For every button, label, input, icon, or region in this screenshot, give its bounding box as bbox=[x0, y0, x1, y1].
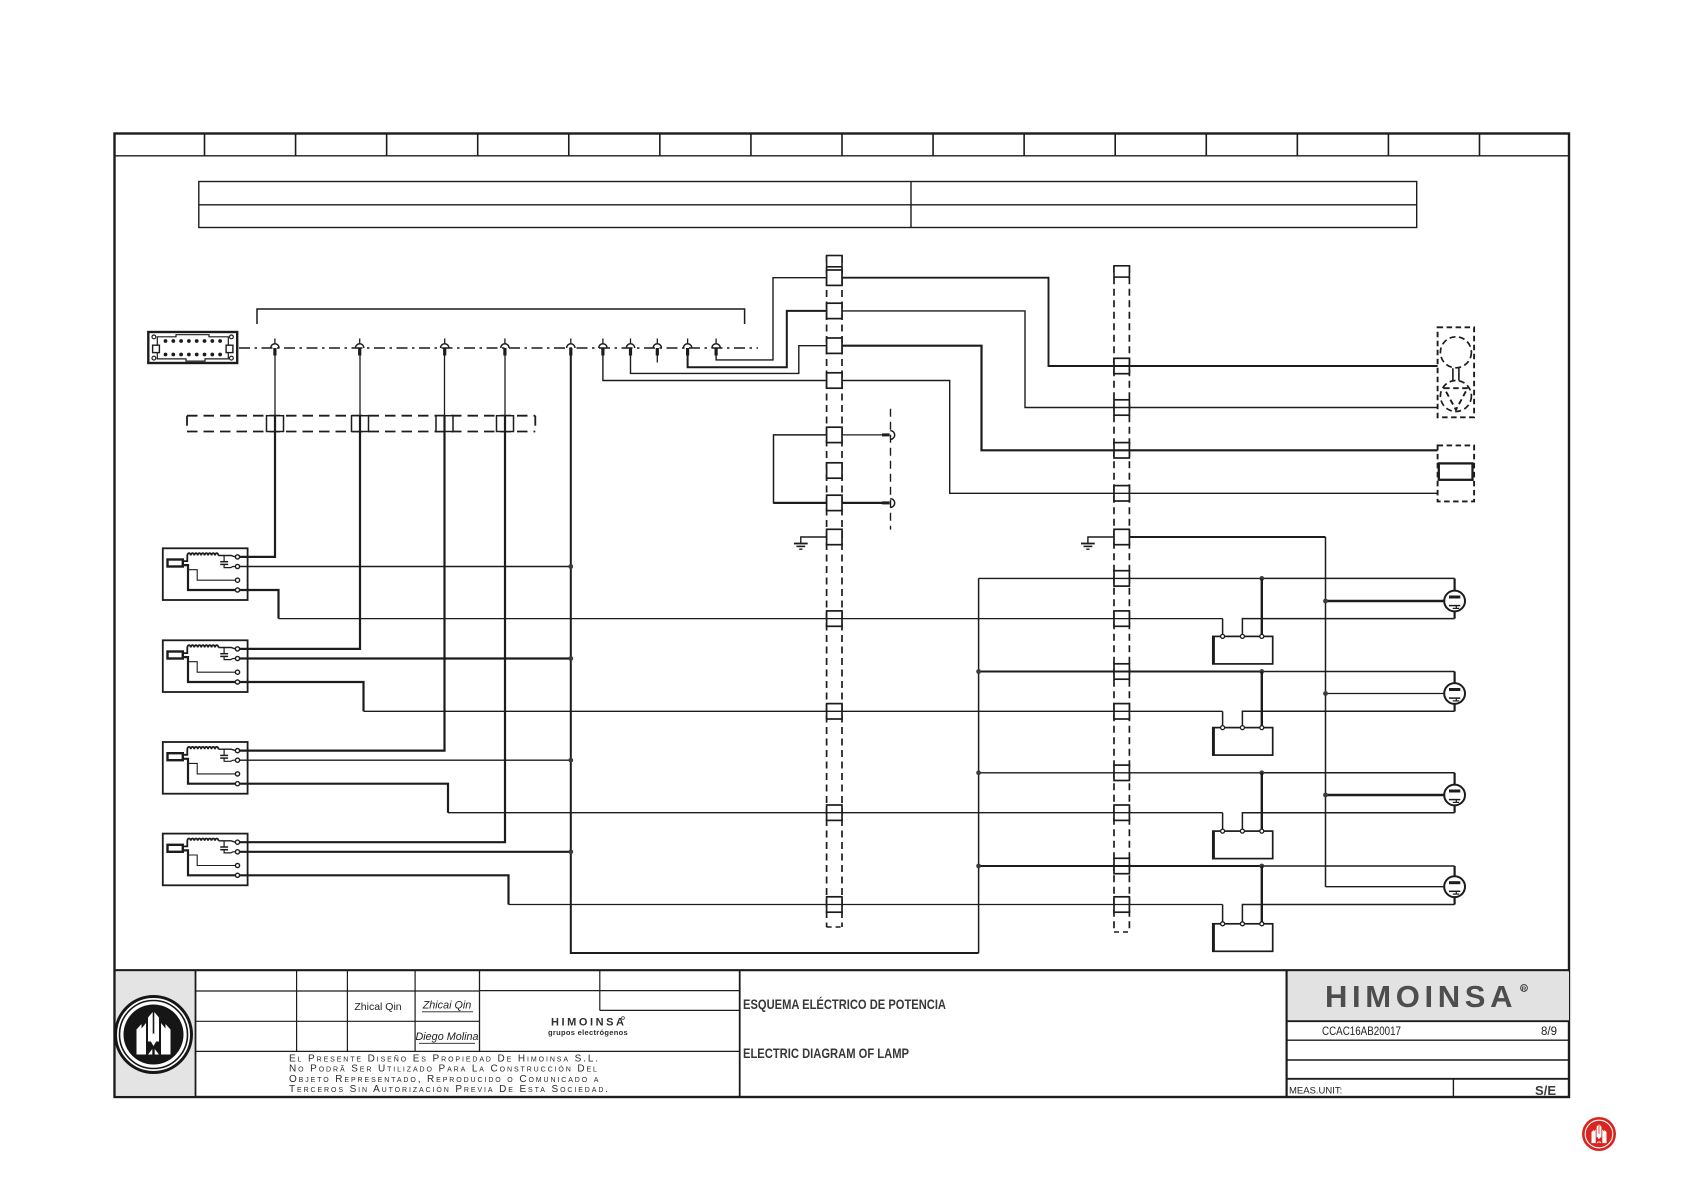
beacon H1 dashed enclosure bbox=[1438, 327, 1475, 417]
wire X1 block2 to X2 block2 to beacon bottom bbox=[842, 311, 1438, 408]
svg-text:S/E: S/E bbox=[1535, 1083, 1556, 1098]
connector J1 corner holes bbox=[152, 335, 156, 339]
title block logo cell grey bbox=[116, 971, 195, 1096]
connector pin symbol 7 bbox=[630, 339, 632, 345]
X1 terminal block 9 bbox=[827, 611, 842, 626]
header info box bbox=[199, 182, 1417, 228]
junction mid rail E3 bbox=[1323, 793, 1328, 798]
igniter K4 terminal2 wire to lamp bottom bbox=[1242, 905, 1454, 922]
bus block 2 bbox=[352, 416, 369, 432]
ballast B4 capacitor C bbox=[223, 841, 225, 847]
wire ballast B3 pin2 to common feed bbox=[240, 759, 571, 761]
wire lamp E2 top feed bbox=[979, 671, 1262, 673]
himoinsa panel bbox=[1285, 970, 1287, 1097]
connector J1 16-pin bbox=[148, 332, 237, 363]
igniter K4 box bbox=[1213, 924, 1273, 952]
ballast B2 inductor L bbox=[183, 645, 219, 653]
wire lamp E4 mid feed bbox=[1326, 886, 1445, 888]
X2 terminal block 9 bbox=[1114, 704, 1129, 719]
svg-text:MEAS.UNIT:: MEAS.UNIT: bbox=[1289, 1086, 1342, 1097]
ballast B4 inductor L bbox=[183, 839, 219, 847]
igniter K3 terminal1 wire bbox=[1222, 813, 1224, 829]
terminal strip X1 top end bbox=[827, 256, 842, 267]
ballast unit B3 box bbox=[163, 742, 248, 794]
junction on common feed at ballast B3 bbox=[568, 758, 573, 763]
igniter K2 terminals bbox=[1221, 726, 1225, 730]
red himoinsa roundel bbox=[1582, 1117, 1616, 1151]
wire connector pin9 to X1 block2 bbox=[688, 311, 827, 367]
wire X1 block7 to sensor pin bbox=[842, 502, 882, 504]
wire ballast B1 pin4 elbow bbox=[240, 590, 279, 619]
ballast B2 capacitor C bbox=[223, 648, 225, 654]
igniter K3 box bbox=[1213, 831, 1273, 859]
bus block 3 bbox=[436, 416, 453, 432]
title block top edge bbox=[115, 969, 1570, 971]
ballast B2 internal wire to pin3 bbox=[188, 662, 236, 673]
wire lamp E4 bottom bus run bbox=[509, 904, 1223, 906]
junction mid rail E2 bbox=[1323, 691, 1328, 696]
X1 terminal block 11 bbox=[827, 805, 842, 820]
dashed bus strip bbox=[187, 415, 535, 417]
wire connector pin4 to ballast B4 pin1 bbox=[504, 356, 506, 416]
ballast B3 terminal pins bbox=[235, 749, 239, 753]
X1 terminal block 10 bbox=[827, 704, 842, 719]
wire connector pin3 to ballast B3 pin1 bbox=[444, 356, 446, 416]
igniter K2 terminal2 wire to lamp bottom bbox=[1242, 711, 1454, 725]
ballast B2 internal wire to pin4 bbox=[183, 657, 236, 682]
igniter K1 terminal3 wire to top junction bbox=[1261, 578, 1263, 634]
X2 terminal block 12 bbox=[1114, 858, 1129, 873]
wire X1 block1 to X2 block1 to beacon top bbox=[842, 278, 1438, 366]
svg-text:HIMOINSA: HIMOINSA bbox=[551, 1017, 625, 1029]
X2 terminal block 4 bbox=[1114, 486, 1129, 501]
junction top bus E3 bbox=[976, 770, 981, 775]
svg-text:Zhicai Qin: Zhicai Qin bbox=[422, 1000, 472, 1012]
svg-text:Diego Molina: Diego Molina bbox=[415, 1031, 478, 1043]
igniter K2 terminal3 wire to top junction bbox=[1261, 672, 1263, 726]
wire lamp E3 mid feed bbox=[1326, 794, 1445, 796]
X1 terminal block 6 bbox=[827, 463, 842, 478]
igniter K4 terminal3 wire to top junction bbox=[1261, 866, 1263, 922]
igniter K4 terminals bbox=[1221, 922, 1225, 926]
sensor dashed axis bbox=[890, 409, 892, 530]
ground wire at X2 bbox=[1088, 537, 1114, 544]
discharge lamp E2 bbox=[1444, 683, 1465, 704]
igniter K1 terminals bbox=[1221, 634, 1225, 638]
connector J1 side tabs bbox=[153, 345, 160, 352]
stub connector pin8 unused bbox=[656, 356, 658, 363]
ballast B2 terminal pins bbox=[235, 647, 239, 651]
discharge lamp E4 bbox=[1444, 876, 1465, 897]
title table verticals bbox=[296, 970, 298, 1051]
wire X1 block4 to X2 block4 to flasher bbox=[842, 381, 1438, 494]
beacon H1 buzzer triangle bbox=[1444, 388, 1467, 410]
svg-text:grupos electrógenos: grupos electrógenos bbox=[548, 1028, 628, 1037]
ground wire at X1 bbox=[801, 537, 827, 544]
sensor pin symbol upper bbox=[882, 433, 890, 436]
sensor pin symbol lower bbox=[882, 501, 890, 504]
ballast B3 inductor L bbox=[183, 747, 219, 755]
svg-text:CCAC16AB20017: CCAC16AB20017 bbox=[1322, 1026, 1401, 1038]
connector pin symbol 3 bbox=[444, 339, 446, 345]
wire ballast B3 pin4 elbow bbox=[240, 784, 448, 813]
X2 terminal block 5 bbox=[1114, 529, 1129, 544]
ballast B3 internal wire to pin3 bbox=[188, 763, 236, 774]
junction top bus E4 bbox=[976, 864, 981, 869]
wire X1 block5 to sensor pin bbox=[842, 434, 882, 436]
svg-text:HIMOINSA: HIMOINSA bbox=[1325, 979, 1515, 1014]
igniter K3 terminals bbox=[1221, 829, 1225, 833]
junction top bus E2 bbox=[976, 669, 981, 674]
ballast B3 internal wire to pin4 bbox=[183, 759, 236, 784]
junction on common feed at ballast B1 bbox=[568, 564, 573, 569]
X2 terminal block 2 bbox=[1114, 400, 1129, 415]
ballast B4 terminal pins bbox=[235, 840, 239, 844]
X1 terminal block 8 bbox=[827, 529, 842, 544]
connector pin symbol 5 bbox=[570, 339, 572, 345]
junction relay K2 coil tap bbox=[1259, 669, 1264, 674]
wire lamp E4 top feed bbox=[979, 865, 1262, 867]
wire lamp E2 bottom bus run bbox=[364, 710, 1223, 712]
ballast unit B2 box bbox=[163, 640, 248, 692]
beacon H1 buzzer circle bbox=[1440, 381, 1471, 412]
beacon H1 link bbox=[1452, 368, 1454, 380]
igniter K4 terminal1 wire bbox=[1222, 905, 1224, 922]
flasher unit body bbox=[1439, 463, 1473, 479]
junction relay K1 coil tap bbox=[1259, 576, 1264, 581]
discharge lamp E3 bbox=[1444, 785, 1465, 806]
ballast B1 capacitor C bbox=[223, 556, 225, 562]
wire connector pin6 to X1 block4 bbox=[603, 356, 827, 381]
terminal strip X1 rails bbox=[826, 256, 828, 928]
ballast unit B1 box bbox=[163, 548, 248, 600]
connector J1 pin dots bbox=[164, 339, 168, 343]
flasher unit dashed enclosure bbox=[1438, 445, 1475, 501]
ground symbol G2 bbox=[1081, 543, 1095, 545]
ground symbol G1 bbox=[794, 543, 808, 545]
wire ballast B4 pin4 elbow bbox=[240, 875, 509, 904]
X2 terminal block 1 bbox=[1114, 358, 1129, 373]
junction on common feed at ballast B2 bbox=[568, 656, 573, 661]
junction on common feed at ballast B4 bbox=[568, 849, 573, 854]
X1 terminal block 1 bbox=[827, 270, 842, 285]
company logo castle bbox=[137, 1012, 171, 1056]
connector pin symbol 4 bbox=[504, 339, 506, 345]
terminal strip X2 rails bbox=[1113, 266, 1115, 932]
ballast B1 internal wire to pin3 bbox=[188, 570, 236, 581]
wire X2 ground block to lamp mid rail bbox=[1129, 536, 1325, 538]
X2 terminal block 7 bbox=[1114, 611, 1129, 626]
igniter K2 terminal1 wire bbox=[1222, 711, 1224, 725]
ballast B1 internal wire to pin4 bbox=[183, 565, 236, 590]
discharge lamp E1 bbox=[1444, 591, 1465, 612]
X1 terminal block 3 bbox=[827, 338, 842, 353]
wire lamp E1 mid feed bbox=[1326, 600, 1445, 602]
igniter K2 box bbox=[1213, 728, 1273, 756]
wire connector pin2 to ballast B2 pin1 bbox=[359, 356, 361, 416]
svg-text:ELECTRIC DIAGRAM OF LAMP: ELECTRIC DIAGRAM OF LAMP bbox=[743, 1045, 909, 1061]
wire X1 block3 to X2 block3 to flasher bbox=[842, 346, 1438, 451]
bus block 4 bbox=[497, 416, 514, 432]
wire connector pin10 to X1 block1 bbox=[716, 278, 827, 360]
lamp top bus vertical bbox=[978, 578, 980, 953]
svg-text:8/9: 8/9 bbox=[1541, 1026, 1557, 1038]
wire ballast B1 pin2 to common feed bbox=[240, 566, 571, 568]
wire ballast B4 pin2 to common feed bbox=[240, 851, 571, 853]
lamp mid rail vertical bbox=[1325, 537, 1327, 887]
wire lamp E1 top feed bbox=[979, 577, 1262, 579]
bus block 1 bbox=[267, 416, 284, 432]
connector pin symbol 6 bbox=[602, 339, 604, 345]
svg-text:R: R bbox=[1522, 986, 1527, 993]
ballast B3 capacitor C bbox=[223, 749, 225, 755]
wire connector pin1 to ballast B1 pin1 bbox=[274, 356, 276, 416]
X1 terminal block 4 bbox=[827, 373, 842, 388]
shield bracket over pins bbox=[257, 309, 745, 324]
page border frame bbox=[115, 134, 1570, 1098]
connector pin symbol 8 bbox=[656, 339, 658, 345]
X2 terminal block 13 bbox=[1114, 897, 1129, 912]
igniter K3 terminal2 wire to lamp bottom bbox=[1242, 813, 1454, 829]
X2 terminal block 3 bbox=[1114, 443, 1129, 458]
terminal strip X2 top end bbox=[1114, 266, 1129, 277]
company logo roundel bbox=[116, 997, 192, 1073]
X1 terminal block 12 bbox=[827, 897, 842, 912]
X2 terminal block 10 bbox=[1114, 765, 1129, 780]
beacon H1 lamp circle bbox=[1440, 337, 1471, 368]
ballast B1 input tab bbox=[168, 560, 183, 567]
panel row lines bbox=[1287, 1020, 1569, 1022]
junction relay K3 coil tap bbox=[1259, 770, 1264, 775]
ballast B1 inductor L bbox=[183, 553, 219, 561]
svg-text:Zhical Qin: Zhical Qin bbox=[354, 1001, 401, 1013]
wire connector pin7 to X1 block3 bbox=[631, 346, 827, 374]
top header cell strip bbox=[115, 155, 1570, 157]
X2 terminal block 11 bbox=[1114, 805, 1129, 820]
ballast B4 input tab bbox=[168, 845, 183, 852]
X2 terminal block 8 bbox=[1114, 664, 1129, 679]
wire lamp E1 bottom bus run bbox=[279, 618, 1223, 620]
connector pin symbol 1 bbox=[274, 339, 276, 345]
connector pin symbol 9 bbox=[687, 339, 689, 345]
ballast B4 internal wire to pin3 bbox=[188, 855, 236, 866]
ballast unit B4 box bbox=[163, 834, 248, 886]
ballast B2 input tab bbox=[168, 652, 183, 659]
junction mid rail E1 bbox=[1323, 599, 1328, 604]
svg-text:Terceros Sin Autorización Prev: Terceros Sin Autorización Previa De Esta… bbox=[289, 1084, 610, 1095]
X1 terminal block 2 bbox=[827, 303, 842, 318]
igniter K3 terminal3 wire to top junction bbox=[1261, 773, 1263, 829]
igniter K1 terminal1 wire bbox=[1222, 619, 1224, 635]
X1 terminal block 7 bbox=[827, 495, 842, 510]
title table horizontals bbox=[196, 1050, 740, 1052]
X1 terminal block 5 bbox=[827, 427, 842, 442]
connector pin symbol 2 bbox=[359, 339, 361, 345]
junction relay K4 coil tap bbox=[1259, 864, 1264, 869]
wire lamp E2 mid feed bbox=[1326, 693, 1445, 695]
wire lamp E3 bottom bus run bbox=[448, 812, 1223, 814]
igniter K1 terminal2 wire to lamp bottom bbox=[1242, 619, 1454, 635]
wire harness dash-dot axis bbox=[239, 347, 758, 349]
wire lamp E3 top feed bbox=[979, 772, 1262, 774]
ballast B1 terminal pins bbox=[235, 555, 239, 559]
X2 terminal block 6 bbox=[1114, 571, 1129, 586]
wire connector pin5 common down feed bbox=[571, 356, 979, 954]
connector pin symbol 10 bbox=[715, 339, 717, 345]
ballast B4 internal wire to pin4 bbox=[183, 850, 236, 875]
igniter K1 box bbox=[1213, 636, 1273, 664]
ballast B3 input tab bbox=[168, 753, 183, 760]
svg-text:ESQUEMA ELÉCTRICO DE POTENCIA: ESQUEMA ELÉCTRICO DE POTENCIA bbox=[743, 996, 946, 1012]
wire ballast B2 pin2 to common feed bbox=[240, 657, 571, 659]
wire ballast B2 pin4 elbow bbox=[240, 682, 364, 711]
wire X1 block5 loop to block7 bbox=[774, 435, 827, 503]
